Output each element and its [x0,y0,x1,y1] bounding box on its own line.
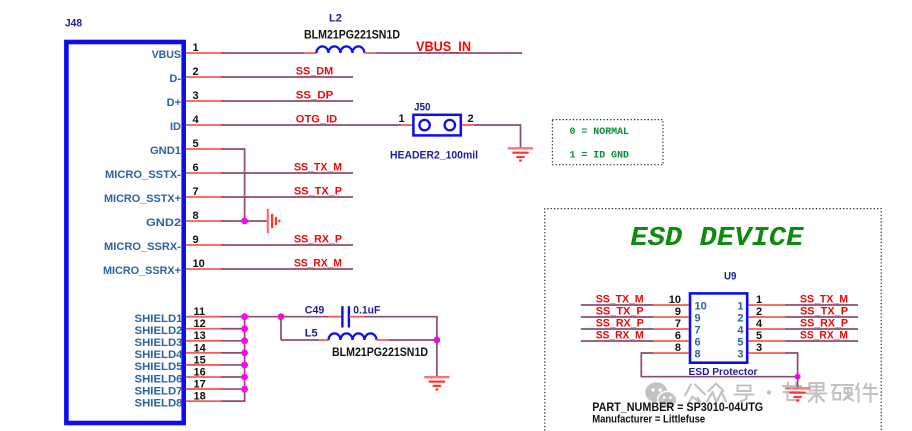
wire pin to net SS_DM [221,76,353,78]
svg-text:SHIELD2: SHIELD2 [135,325,183,337]
svg-text:L2: L2 [329,13,342,25]
svg-text:12: 12 [194,318,206,330]
junction shield bus pin17 [241,386,248,393]
pin 13 stub of J48 [186,340,221,342]
U9 right pin 4 stub [748,328,785,330]
pin 15 stub of J48 [186,364,221,366]
svg-text:18: 18 [194,390,206,402]
svg-text:GND2: GND2 [146,217,181,229]
svg-text:SS_TX_M: SS_TX_M [596,293,644,305]
pin 8 stub of J48 [186,220,221,222]
svg-text:BLM21PG221SN1D: BLM21PG221SN1D [304,28,400,42]
svg-text:SHIELD6: SHIELD6 [135,373,183,385]
svg-text:SS_RX_P: SS_RX_P [800,317,848,329]
svg-text:4: 4 [193,114,200,126]
note box 0=NORMAL / 1=ID GND [552,120,663,165]
svg-text:C49: C49 [305,304,325,316]
svg-text:2: 2 [737,313,743,325]
wire U9 pin8 to bottom [641,353,797,377]
U9 left pin 8 stub [654,352,689,354]
U9 right pin 2 stub [748,316,785,318]
wire pin to net SS_TX_P [221,196,353,198]
wire pin16 to bus [221,376,245,378]
U9 left pin 9 stub [654,316,689,318]
watermark char mang [783,383,802,401]
svg-text:9: 9 [675,306,681,318]
svg-text:8: 8 [695,349,701,361]
pin 3 stub of J48 [186,100,221,102]
wire left node to L5 [281,339,319,341]
svg-text:1 = ID GND: 1 = ID GND [570,150,630,162]
svg-text:4: 4 [737,325,744,337]
svg-text:SHIELD5: SHIELD5 [135,361,183,373]
svg-text:7: 7 [193,186,199,198]
pin 16 stub of J48 [186,376,221,378]
svg-text:2: 2 [756,306,762,318]
ferrite bead L2 [304,46,375,53]
svg-text:7: 7 [695,325,701,337]
watermark char guo [807,383,827,403]
wire right node to ground [436,340,438,376]
svg-text:3: 3 [737,349,743,361]
wire GND1 (pin5) to bus [221,149,245,221]
svg-text:MICRO_SSRX+: MICRO_SSRX+ [103,265,181,277]
wire left node down to L5 branch [280,317,282,340]
junction shield bus pin11 [241,313,248,320]
ESD region dashed box [545,209,881,431]
wire L2 to VBUS_IN [376,52,523,54]
ground (shield filter) [424,376,449,378]
svg-text:SHIELD3: SHIELD3 [135,337,183,349]
wire U9 right row 2 [785,316,858,318]
pin 2 stub of J48 [186,76,221,78]
svg-text:VBUS_IN: VBUS_IN [416,39,471,54]
watermark middle dot [767,390,771,394]
svg-text:9: 9 [193,234,199,246]
watermark char jian [856,384,878,403]
svg-text:2: 2 [193,66,199,78]
svg-text:5: 5 [756,330,762,342]
ground (GND2, rotated) [268,209,280,233]
svg-text:U9: U9 [724,271,737,283]
svg-text:Manufacturer = Littlefuse: Manufacturer = Littlefuse [592,413,705,425]
wire C49 to right node [364,317,437,340]
svg-text:SS_TX_M: SS_TX_M [800,293,848,305]
pin 10 stub of J48 [186,268,221,270]
svg-text:10: 10 [193,258,205,270]
wire to C49 [281,316,328,318]
wire pin18 to bus [221,400,245,402]
svg-text:D+: D+ [167,97,181,109]
pin 5 stub of J48 [186,148,221,150]
pin 18 stub of J48 [186,400,221,402]
wire L5 to right node [389,339,437,341]
svg-text:6: 6 [675,330,681,342]
svg-text:BLM21PG221SN1D: BLM21PG221SN1D [332,345,428,359]
wire pin13 to bus [221,340,245,342]
wire U9 right row 3 [785,328,858,330]
svg-text:16: 16 [194,366,206,378]
svg-text:ESD DEVICE: ESD DEVICE [630,224,804,254]
svg-text:SS_TX_P: SS_TX_P [294,185,342,197]
ESD protector U9 body [690,293,747,362]
svg-text:J48: J48 [65,18,82,30]
svg-text:6: 6 [193,162,199,174]
ground (J50 pin2) [508,147,533,149]
svg-text:SHIELD1: SHIELD1 [135,313,183,325]
svg-text:SS_RX_P: SS_RX_P [596,317,644,329]
wire U9 left row 1 [581,304,654,306]
svg-text:15: 15 [194,354,206,366]
capacitor C49 [328,306,364,327]
pin 9 stub of J48 [186,244,221,246]
svg-text:ESD Protector: ESD Protector [689,366,758,378]
U9 right pin 3 stub [748,352,785,354]
wire junction to ground [797,377,799,388]
junction shield bus pin14 [241,349,248,356]
ground (U9) [785,387,810,389]
wire pin4 OTG_ID to J50 [221,124,401,126]
pin 12 stub of J48 [186,328,221,330]
svg-text:HEADER2_100mil: HEADER2_100mil [390,150,478,162]
svg-text:SHIELD7: SHIELD7 [135,385,183,397]
wire pin17 to bus [221,388,245,390]
svg-text:SHIELD8: SHIELD8 [135,397,183,409]
watermark char ying [832,385,854,401]
wire U9 left row 4 [581,340,654,342]
svg-text:0 = NORMAL: 0 = NORMAL [570,126,630,138]
wire pin to net SS_TX_M [221,172,353,174]
svg-text:8: 8 [675,342,681,354]
wire pin to net SS_RX_M [221,268,353,270]
svg-text:SS_TX_P: SS_TX_P [596,305,644,317]
svg-text:5: 5 [193,138,199,150]
svg-text:MICRO_SSTX-: MICRO_SSTX- [105,169,181,181]
pin 11 stub of J48 [186,316,221,318]
shield bus vertical wire [244,317,246,401]
wire pin12 to bus [221,328,245,330]
svg-text:6: 6 [695,337,701,349]
wire GND2 (pin8) to ground [221,220,267,222]
svg-text:SS_DP: SS_DP [296,89,333,101]
svg-text:SS_DM: SS_DM [296,65,333,77]
svg-text:2: 2 [468,113,474,125]
pin 14 stub of J48 [186,352,221,354]
svg-text:1: 1 [756,294,762,306]
wire pin to net SS_DP [221,100,353,102]
svg-text:L5: L5 [305,327,318,339]
wire U9 pin3 to bottom [785,353,798,377]
svg-text:MICRO_SSTX+: MICRO_SSTX+ [104,193,181,205]
svg-text:1: 1 [193,42,199,54]
wire pin to net SS_RX_P [221,244,353,246]
junction C49/L5 left node [278,313,285,320]
watermark char gong [685,385,705,403]
svg-text:SHIELD4: SHIELD4 [135,349,184,361]
junction right node [434,337,441,344]
svg-text:3: 3 [756,342,762,354]
svg-text:1: 1 [737,301,743,313]
svg-text:SS_RX_M: SS_RX_M [294,257,342,269]
svg-text:SS_TX_M: SS_TX_M [294,161,342,173]
svg-text:VBUS: VBUS [152,49,181,61]
pin 7 stub of J48 [186,196,221,198]
connector J48 body [66,42,183,423]
ferrite bead L5 [319,333,390,340]
wire pin15 to bus [221,364,245,366]
wire U9 right row 4 [785,340,858,342]
svg-text:0.1uF: 0.1uF [353,304,380,316]
junction U9 ground node [795,374,801,380]
watermark char zhong [707,384,726,402]
svg-text:SS_RX_M: SS_RX_M [800,329,848,341]
wire U9 left row 3 [581,328,654,330]
pin 6 stub of J48 [186,172,221,174]
svg-text:11: 11 [194,306,206,318]
pin 4 stub of J48 [186,124,221,126]
junction shield bus pin16 [241,374,248,381]
svg-text:D-: D- [169,73,181,85]
svg-text:8: 8 [193,210,199,222]
pin 17 stub of J48 [186,388,221,390]
wire pin11 to C49/L5 node [221,316,281,318]
svg-text:10: 10 [669,294,681,306]
U9 right pin 5 stub [748,340,785,342]
U9 right pin 1 stub [748,304,785,306]
svg-text:SS_RX_M: SS_RX_M [596,329,644,341]
svg-text:4: 4 [756,318,763,330]
watermark wechat logo [645,382,677,408]
svg-text:SS_TX_P: SS_TX_P [800,305,848,317]
svg-text:MICRO_SSRX-: MICRO_SSRX- [104,241,181,253]
wire U9 right row 1 [785,304,858,306]
junction shield bus pin15 [241,362,248,369]
junction shield bus pin13 [241,337,248,344]
junction GND bus (pin8) [241,218,248,225]
svg-text:OTG_ID: OTG_ID [296,113,337,125]
svg-text:3: 3 [193,90,199,102]
svg-text:PART_NUMBER = SP3010-04UTG: PART_NUMBER = SP3010-04UTG [592,400,763,414]
U9 left pin 7 stub [654,328,689,330]
wire U9 left row 2 [581,316,654,318]
svg-text:13: 13 [194,330,206,342]
wire pin14 to bus [221,352,245,354]
svg-text:9: 9 [695,313,701,325]
svg-text:14: 14 [194,342,207,354]
svg-text:SS_RX_P: SS_RX_P [294,233,342,245]
U9 left pin 10 stub [654,304,689,306]
watermark char hao [735,386,754,402]
svg-text:ID: ID [170,121,181,133]
svg-text:10: 10 [695,301,707,313]
svg-text:J50: J50 [414,102,431,114]
header J50 [401,115,474,136]
svg-text:5: 5 [737,337,743,349]
wire pin1 to L2 [221,52,304,54]
svg-text:1: 1 [399,113,405,125]
junction shield bus pin12 [241,325,248,332]
wire J50 pin2 to ground [474,125,521,147]
svg-text:17: 17 [194,378,206,390]
svg-text:GND1: GND1 [150,145,181,157]
pin 1 stub of J48 [186,52,221,54]
svg-text:7: 7 [675,318,681,330]
U9 left pin 6 stub [654,340,689,342]
